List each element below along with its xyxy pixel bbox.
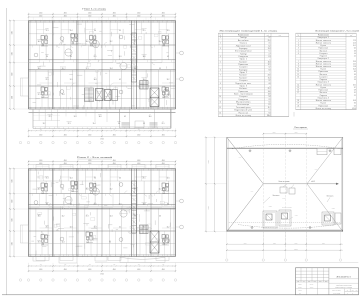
svg-text:3.3: 3.3 [70, 204, 72, 206]
svg-text:21.2: 21.2 [268, 88, 271, 90]
svg-text:12.1: 12.1 [268, 64, 271, 66]
svg-text:10.1: 10.1 [119, 56, 122, 58]
svg-text:11.2: 11.2 [62, 68, 65, 70]
plan 1 core A staircase [85, 88, 94, 102]
svg-text:14.8: 14.8 [38, 189, 41, 191]
svg-text:12.4: 12.4 [159, 41, 162, 43]
svg-text:12.4: 12.4 [110, 68, 113, 70]
plan 2 wall stubs [31, 172, 170, 256]
svg-text:4500: 4500 [64, 160, 67, 162]
svg-text:Лоджия: Лоджия [320, 95, 327, 97]
plan 2 bathroom fixture clusters [41, 181, 169, 245]
svg-text:жилая: жилая [45, 202, 49, 204]
svg-text:9.7: 9.7 [354, 87, 356, 89]
plan 2 central shafts service shaft bank [132, 181, 137, 233]
svg-text:750: 750 [40, 264, 42, 266]
svg-text:Итого по этажу: Итого по этажу [236, 115, 251, 117]
svg-text:2.4: 2.4 [354, 79, 356, 81]
svg-text:гостиная: гостиная [132, 66, 137, 68]
svg-text:2.1: 2.1 [354, 95, 356, 97]
svg-text:286.4: 286.4 [267, 115, 271, 117]
svg-text:750: 750 [162, 129, 164, 131]
floor plan 1 window ticks [31, 20, 172, 110]
plan 2 room marker circles [34, 183, 170, 244]
svg-text:гостиная: гостиная [141, 202, 146, 204]
svg-text:21.5: 21.5 [46, 79, 49, 81]
svg-text:13: 13 [220, 112, 222, 114]
svg-text:17.3: 17.3 [68, 123, 71, 125]
roof vent units center [239, 157, 318, 228]
svg-text:2.7: 2.7 [269, 53, 271, 55]
title block document number [329, 276, 359, 279]
plan 1 right axis circles [176, 51, 184, 81]
svg-text:жилая: жилая [37, 214, 41, 216]
plan 2 door swing arcs [41, 191, 159, 234]
svg-text:Кухня: Кухня [321, 103, 327, 105]
svg-text:12.4: 12.4 [70, 178, 73, 180]
svg-text:4500: 4500 [64, 13, 67, 15]
svg-text:жилая: жилая [37, 187, 41, 189]
svg-text:Кабинет: Кабинет [239, 75, 247, 77]
svg-text:Коридор: Коридор [239, 48, 247, 50]
svg-text:жилая: жилая [98, 114, 102, 116]
svg-text:гостиная: гостиная [141, 176, 146, 178]
svg-text:3.3: 3.3 [167, 94, 169, 96]
svg-text:Кабинет: Кабинет [239, 61, 247, 63]
svg-text:15: 15 [297, 87, 299, 89]
svg-text:21.5: 21.5 [143, 30, 146, 32]
plan 1 door swing arcs [57, 42, 155, 88]
svg-text:750: 750 [64, 129, 66, 131]
svg-text:4500: 4500 [88, 160, 91, 162]
svg-text:6300: 6300 [12, 179, 14, 182]
svg-text:1.4: 1.4 [354, 77, 356, 79]
roof drain funnels [249, 149, 332, 229]
svg-text:Ванная: Ванная [320, 50, 327, 52]
svg-text:6.2: 6.2 [124, 116, 126, 118]
svg-text:3.3: 3.3 [167, 242, 169, 244]
title block zone top line [95, 261, 358, 263]
svg-text:11: 11 [297, 71, 299, 73]
svg-text:6.2: 6.2 [167, 204, 169, 206]
plan 2 right axis circles [176, 199, 184, 229]
svg-text:Охрана: Охрана [240, 43, 247, 45]
svg-text:12.4: 12.4 [70, 30, 73, 32]
svg-text:4500: 4500 [137, 134, 140, 136]
svg-text:20: 20 [297, 105, 299, 107]
svg-text:и 2%: и 2% [239, 157, 242, 159]
svg-text:10.1: 10.1 [70, 227, 73, 229]
plan 2 balconies top [36, 165, 169, 169]
svg-text:жилая: жилая [37, 92, 41, 94]
plan 2 left balconies [21, 225, 29, 243]
plan 2 staircase [140, 225, 149, 234]
svg-text:5.1: 5.1 [269, 51, 271, 53]
svg-text:Уклон по стяжке: Уклон по стяжке [279, 181, 290, 183]
svg-text:12.4: 12.4 [62, 94, 65, 96]
sheet frame left border [6, 8, 8, 295]
svg-text:750: 750 [138, 264, 140, 266]
svg-text:3.7: 3.7 [269, 37, 271, 39]
svg-text:4500: 4500 [162, 269, 165, 271]
svg-text:15.4: 15.4 [268, 77, 271, 79]
svg-text:4500: 4500 [162, 15, 165, 17]
svg-text:4500: 4500 [137, 163, 140, 165]
svg-text:4500: 4500 [137, 15, 140, 17]
svg-text:8100: 8100 [273, 132, 276, 134]
svg-text:гостиная: гостиная [132, 39, 137, 41]
svg-text:Лоджия: Лоджия [320, 79, 327, 81]
floor plan 2 interior partitions [29, 169, 176, 257]
svg-text:17.3: 17.3 [46, 30, 49, 32]
svg-text:Приемная: Приемная [238, 91, 248, 93]
svg-text:8.2: 8.2 [269, 45, 271, 47]
svg-text:2.100: 2.100 [283, 198, 286, 200]
svg-text:3.2: 3.2 [269, 67, 271, 69]
svg-text:Жилая комната: Жилая комната [316, 84, 331, 86]
svg-text:9.6: 9.6 [118, 123, 120, 125]
plan 1 core A elevator shafts [96, 89, 118, 101]
svg-text:+3.300: +3.300 [331, 208, 335, 210]
svg-text:Изм: Изм [297, 281, 299, 283]
svg-text:3.3: 3.3 [119, 30, 121, 32]
svg-text:Прихожая: Прихожая [319, 90, 329, 92]
svg-text:Наименование: Наименование [318, 34, 329, 36]
svg-text:8400: 8400 [322, 242, 325, 244]
svg-text:11.2: 11.2 [268, 107, 271, 109]
svg-text:Прихожая: Прихожая [319, 71, 329, 73]
plan 2 porches bottom [33, 257, 165, 264]
svg-text:1.4: 1.4 [354, 53, 356, 55]
roof outline [227, 137, 343, 231]
sheet frame bottom border [2, 294, 359, 296]
svg-text:3.3: 3.3 [70, 56, 72, 58]
svg-text:6.2: 6.2 [119, 79, 121, 81]
svg-text:18.1: 18.1 [353, 84, 356, 86]
svg-text:6300: 6300 [12, 72, 14, 75]
plan 1 large room stamp circle [162, 89, 170, 97]
svg-text:16: 16 [297, 90, 299, 92]
roof bottom dimension chains [226, 232, 343, 259]
svg-text:4500: 4500 [39, 163, 42, 165]
plan 1 elevator shafts [150, 88, 159, 107]
svg-text:21.5: 21.5 [94, 204, 97, 206]
roof drainage arcs [232, 144, 340, 228]
roof slope arrow ridge [263, 181, 338, 185]
svg-text:18.0: 18.0 [38, 216, 41, 218]
svg-text:Вентшахта: Вентшахта [273, 195, 280, 197]
svg-text:21.5: 21.5 [49, 116, 52, 118]
svg-text:Жилая комната: Жилая комната [316, 61, 331, 63]
svg-text:4500: 4500 [39, 269, 42, 271]
svg-text:14.8: 14.8 [94, 227, 97, 229]
svg-text:гостиная: гостиная [66, 121, 71, 123]
svg-text:Тамбур: Тамбур [240, 37, 247, 39]
svg-text:4500: 4500 [39, 13, 42, 15]
svg-text:21.5: 21.5 [94, 56, 97, 58]
plan 1 left balconies [21, 78, 29, 96]
svg-text:Прихожая: Прихожая [319, 48, 329, 50]
svg-text:Насосная: Насосная [239, 112, 249, 114]
svg-text:12.4: 12.4 [268, 48, 271, 50]
svg-text:План 2 - 9-го этажей: План 2 - 9-го этажей [77, 156, 114, 159]
plan 1 central joint wall [132, 21, 137, 110]
svg-text:Наименование: Наименование [238, 34, 249, 36]
svg-text:Приемная: Приемная [238, 64, 248, 66]
svg-text:7.4: 7.4 [269, 110, 271, 112]
plan 1 axis circles [19, 141, 176, 143]
svg-text:17.3: 17.3 [86, 216, 89, 218]
svg-text:750: 750 [40, 129, 42, 131]
svg-text:6000: 6000 [295, 242, 298, 244]
svg-text:Санузел: Санузел [239, 67, 247, 69]
floor plan 1 section walls [52, 21, 151, 110]
svg-text:10.1: 10.1 [167, 30, 170, 32]
svg-text:гостиная: гостиная [132, 187, 137, 189]
svg-text:6300: 6300 [12, 52, 14, 55]
svg-text:3.3: 3.3 [143, 123, 145, 125]
floor plan 2 window ticks [31, 168, 172, 257]
svg-text:Коридор: Коридор [239, 69, 247, 71]
plan 1 staircase [140, 81, 149, 90]
svg-text:Санузел: Санузел [239, 80, 247, 82]
svg-text:12000: 12000 [208, 206, 210, 210]
svg-text:9.6: 9.6 [46, 204, 48, 206]
plan 1 lower band walls [29, 109, 176, 129]
svg-text:гостиная: гостиная [47, 114, 52, 116]
svg-text:Вентшахта: Вентшахта [327, 196, 334, 198]
svg-text:750: 750 [113, 264, 115, 266]
svg-text:Санузел: Санузел [319, 77, 327, 79]
plan 2 top dimension chains [28, 160, 176, 169]
svg-text:18.0: 18.0 [143, 79, 146, 81]
svg-text:12.4: 12.4 [159, 189, 162, 191]
floor plan 1 outer walls [29, 21, 176, 110]
floor plan 2 outer walls [29, 169, 176, 257]
svg-text:10: 10 [297, 69, 299, 71]
svg-text:4500: 4500 [88, 163, 91, 165]
svg-text:жилая: жилая [45, 225, 49, 227]
svg-text:жилая: жилая [37, 39, 41, 41]
svg-text:19.6: 19.6 [353, 61, 356, 63]
plan 1 wall stubs [33, 24, 176, 110]
svg-text:4500: 4500 [64, 134, 67, 136]
plan 2 central joint wall [132, 169, 137, 257]
plan 1 top dimension chains [28, 13, 176, 21]
svg-text:+3.300: +3.300 [268, 206, 272, 208]
svg-text:3.3: 3.3 [159, 68, 161, 70]
svg-text:6.2: 6.2 [119, 227, 121, 229]
svg-text:17.3: 17.3 [38, 242, 41, 244]
svg-text:9.6: 9.6 [94, 30, 96, 32]
svg-text:Санузел: Санузел [239, 96, 247, 98]
svg-text:3.3: 3.3 [354, 74, 356, 76]
svg-text:Жилая комната: Жилая комната [316, 66, 331, 68]
svg-text:Жилая комната: Жилая комната [316, 63, 331, 65]
svg-text:2.1: 2.1 [354, 56, 356, 58]
roof hip valley lines [227, 137, 343, 231]
svg-text:8.3: 8.3 [354, 71, 356, 73]
svg-text:Жилая комната: Жилая комната [316, 100, 331, 102]
svg-text:13: 13 [297, 77, 299, 79]
svg-text:Подсобное пом.: Подсобное пом. [235, 83, 251, 85]
svg-text:11: 11 [220, 102, 222, 104]
svg-text:6000: 6000 [273, 242, 276, 244]
svg-text:гостиная: гостиная [141, 54, 146, 56]
svg-text:10.1: 10.1 [167, 178, 170, 180]
svg-text:6.8: 6.8 [269, 69, 271, 71]
svg-text:Кухня: Кухня [321, 69, 327, 71]
svg-text:17: 17 [297, 92, 299, 94]
floor plan 2 section walls [52, 169, 151, 257]
svg-text:21.5: 21.5 [143, 178, 146, 180]
roof parapet vents top [317, 148, 341, 155]
svg-text:750: 750 [113, 129, 115, 131]
svg-text:14.8: 14.8 [94, 79, 97, 81]
svg-text:гостиная: гостиная [141, 225, 146, 227]
svg-text:4500: 4500 [137, 13, 140, 15]
svg-text:4.5: 4.5 [269, 43, 271, 45]
svg-text:жилая: жилая [37, 240, 41, 242]
svg-text:и 2%: и 2% [315, 169, 318, 171]
svg-text:Экспликация помещений 1-го эта: Экспликация помещений 1-го этажа [219, 30, 278, 33]
svg-text:3.3: 3.3 [354, 50, 356, 52]
svg-text:Санузел: Санузел [319, 53, 327, 55]
plan 2 elevator shafts [150, 231, 159, 253]
svg-text:4500: 4500 [88, 269, 91, 271]
svg-text:17.3: 17.3 [134, 41, 137, 43]
svg-text:12.4: 12.4 [93, 123, 96, 125]
svg-text:жилая: жилая [45, 176, 49, 178]
room schedule table floors 2-9 grid [296, 33, 357, 110]
svg-text:11.2: 11.2 [167, 227, 170, 229]
room schedule table floor 1 grid [218, 33, 288, 117]
svg-text:Вестибюль: Вестибюль [238, 40, 249, 42]
svg-text:18.0: 18.0 [38, 68, 41, 70]
svg-text:6.2: 6.2 [167, 56, 169, 58]
svg-text:14.8: 14.8 [268, 94, 271, 96]
roof axis dashed lines [263, 112, 306, 247]
title block project name [329, 283, 359, 295]
plan 2 furniture [38, 176, 167, 245]
svg-text:Ванная: Ванная [320, 92, 327, 94]
svg-text:Квартира 3: Квартира 3 [318, 82, 329, 84]
svg-text:Венткамера: Венткамера [237, 104, 249, 106]
svg-text:14.8: 14.8 [38, 41, 41, 43]
svg-text:17.3: 17.3 [46, 178, 49, 180]
svg-text:гостиная: гостиная [141, 77, 146, 79]
svg-text:3.3: 3.3 [119, 178, 121, 180]
svg-text:18.0: 18.0 [143, 227, 146, 229]
svg-text:Выход на кровлю: Выход на кровлю [282, 207, 292, 209]
svg-text:4500: 4500 [162, 160, 165, 162]
svg-text:24.6: 24.6 [268, 75, 271, 77]
svg-text:6300: 6300 [12, 96, 14, 99]
svg-text:Петров: Петров [310, 286, 314, 288]
svg-text:19: 19 [297, 103, 299, 105]
svg-text:27000: 27000 [100, 273, 104, 275]
svg-text:12.4: 12.4 [62, 242, 65, 244]
svg-text:2-9 эт., кровли: 2-9 эт., кровли [333, 293, 341, 295]
svg-text:4500: 4500 [39, 160, 42, 162]
svg-text:10.1: 10.1 [353, 45, 356, 47]
svg-text:14.8: 14.8 [99, 116, 102, 118]
svg-text:Лоджия: Лоджия [320, 56, 327, 58]
plan 2 bottom dimension chains [28, 263, 176, 276]
svg-text:Кухня: Кухня [321, 87, 327, 89]
svg-text:750: 750 [64, 264, 66, 266]
svg-text:6.2: 6.2 [62, 189, 64, 191]
svg-text:21.5: 21.5 [162, 123, 165, 125]
svg-text:жилая: жилая [45, 28, 49, 30]
svg-text:14.8: 14.8 [143, 56, 146, 58]
svg-text:5.6: 5.6 [354, 105, 356, 107]
svg-text:5.9: 5.9 [354, 90, 356, 92]
svg-text:Квартира 1: Квартира 1 [318, 37, 329, 39]
plan 1 bottom dimension chains [28, 128, 176, 140]
svg-text:Иванов: Иванов [310, 284, 314, 286]
plan 2 room area labels [37, 176, 169, 244]
svg-text:Кабинет: Кабинет [239, 88, 247, 90]
svg-text:Квартира 4: Квартира 4 [318, 97, 329, 99]
svg-text:9.4: 9.4 [354, 103, 356, 105]
svg-text:11.2: 11.2 [110, 41, 113, 43]
svg-text:Комн. переговоров: Комн. переговоров [234, 94, 253, 96]
svg-text:10: 10 [220, 96, 222, 98]
svg-text:18.0: 18.0 [86, 41, 89, 43]
svg-text:18: 18 [297, 100, 299, 102]
svg-text:8100: 8100 [295, 132, 298, 134]
svg-text:4500: 4500 [113, 163, 116, 165]
svg-text:750: 750 [138, 129, 140, 131]
svg-text:4500: 4500 [113, 269, 116, 271]
svg-text:Тамбур: Тамбур [240, 53, 247, 55]
svg-text:Кухня: Кухня [321, 45, 327, 47]
svg-text:4500: 4500 [64, 269, 67, 271]
svg-text:9.6: 9.6 [134, 216, 136, 218]
svg-text:6.2: 6.2 [354, 48, 356, 50]
svg-text:Кладовая: Кладовая [239, 99, 249, 101]
svg-text:421.8: 421.8 [352, 108, 356, 110]
svg-text:2.9: 2.9 [269, 99, 271, 101]
svg-text:4500: 4500 [162, 163, 165, 165]
svg-text:14.8: 14.8 [143, 204, 146, 206]
svg-text:4500: 4500 [137, 160, 140, 162]
plan 1 room area labels [37, 28, 169, 125]
svg-text:16.8: 16.8 [353, 100, 356, 102]
svg-text:жилая: жилая [45, 77, 49, 79]
svg-text:10.4: 10.4 [353, 69, 356, 71]
svg-text:4500: 4500 [162, 134, 165, 136]
svg-text:12.4: 12.4 [353, 42, 356, 44]
svg-text:4500: 4500 [113, 15, 116, 17]
roof left dimension chains [205, 137, 227, 233]
svg-text:11.8: 11.8 [353, 66, 356, 68]
svg-text:750: 750 [89, 129, 91, 131]
svg-text:9.3: 9.3 [269, 112, 271, 114]
svg-text:Жилая комната: Жилая комната [316, 40, 331, 42]
svg-text:4500: 4500 [113, 134, 116, 136]
svg-text:10.6: 10.6 [268, 91, 271, 93]
svg-text:9.6: 9.6 [134, 68, 136, 70]
svg-text:4500: 4500 [162, 13, 165, 15]
svg-text:4500: 4500 [137, 269, 140, 271]
roof top dimension chain [263, 132, 307, 137]
svg-text:Итого по этажу: Итого по этажу [316, 108, 331, 110]
svg-text:750: 750 [162, 264, 164, 266]
svg-text:11.2: 11.2 [110, 189, 113, 191]
svg-text:гостиная: гостиная [132, 214, 137, 216]
